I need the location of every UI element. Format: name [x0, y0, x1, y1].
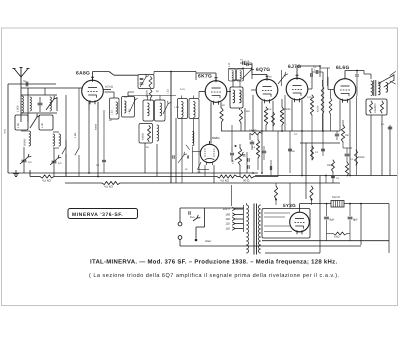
svg-text:6A8G: 6A8G — [76, 71, 90, 77]
svg-text:Fus.: Fus. — [190, 216, 195, 219]
svg-text:1 MΩ: 1 MΩ — [74, 132, 77, 138]
svg-text:5Y3G: 5Y3G — [283, 203, 296, 208]
svg-text:50000: 50000 — [95, 123, 98, 130]
svg-text:6J7G: 6J7G — [288, 64, 301, 70]
svg-text:L 23: L 23 — [111, 110, 114, 115]
svg-text:140: 140 — [225, 217, 230, 221]
svg-text:4,5: 4,5 — [28, 161, 32, 164]
svg-text:50000: 50000 — [146, 90, 149, 97]
svg-text:L 23: L 23 — [167, 89, 170, 94]
svg-text:CAMPO: CAMPO — [374, 103, 377, 113]
svg-text:40000: 40000 — [142, 133, 145, 140]
svg-text:1 MΩ: 1 MΩ — [244, 110, 250, 113]
svg-text:110: 110 — [226, 227, 231, 231]
svg-text:12,5: 12,5 — [180, 88, 185, 91]
svg-text:4,5 kΩ: 4,5 kΩ — [42, 179, 52, 183]
svg-text:512 Ω: 512 Ω — [332, 195, 340, 199]
svg-text:50 Ω: 50 Ω — [243, 179, 250, 183]
svg-text:L 23: L 23 — [174, 106, 179, 109]
svg-text:0,1: 0,1 — [313, 66, 317, 69]
svg-text:8 kΩ: 8 kΩ — [334, 236, 339, 239]
svg-text:1 nF: 1 nF — [245, 60, 250, 63]
svg-text:25000: 25000 — [327, 164, 334, 167]
svg-text:160: 160 — [225, 213, 230, 217]
svg-text:6K7G: 6K7G — [198, 74, 212, 80]
svg-text:0,25: 0,25 — [307, 96, 312, 99]
svg-text:50000: 50000 — [284, 108, 291, 111]
svg-text:L 50: L 50 — [17, 122, 20, 128]
svg-text:250: 250 — [345, 134, 350, 137]
svg-text:8μF: 8μF — [353, 218, 358, 222]
svg-text:4,5 kΩ: 4,5 kΩ — [104, 185, 114, 189]
svg-text:50000: 50000 — [24, 138, 27, 146]
svg-text:MINERVA ’376-SF.: MINERVA ’376-SF. — [72, 212, 123, 218]
svg-text:4,5: 4,5 — [58, 162, 62, 165]
svg-text:50000: 50000 — [317, 105, 320, 112]
svg-text:8μF: 8μF — [330, 218, 335, 222]
svg-text:4,5 kΩ: 4,5 kΩ — [220, 179, 230, 183]
svg-text:220 V: 220 V — [223, 207, 230, 211]
svg-text:Interr.: Interr. — [205, 240, 212, 243]
svg-text:125: 125 — [225, 222, 230, 226]
svg-text:ITAL-MINERVA. — Mod. 376 SF. –: ITAL-MINERVA. — Mod. 376 SF. – Produzion… — [90, 259, 337, 266]
svg-text:L 500: L 500 — [17, 105, 20, 112]
svg-text:6B8G: 6B8G — [212, 136, 220, 140]
svg-text:6Q7G: 6Q7G — [256, 67, 270, 73]
svg-text:L 50: L 50 — [41, 122, 44, 128]
svg-text:Terra: Terra — [4, 128, 7, 134]
svg-text:4,5 kΩ: 4,5 kΩ — [105, 86, 113, 89]
svg-text:( La sezione triodo della 6Q7: ( La sezione triodo della 6Q7 amplifica … — [89, 273, 340, 279]
svg-text:50000: 50000 — [358, 156, 365, 159]
